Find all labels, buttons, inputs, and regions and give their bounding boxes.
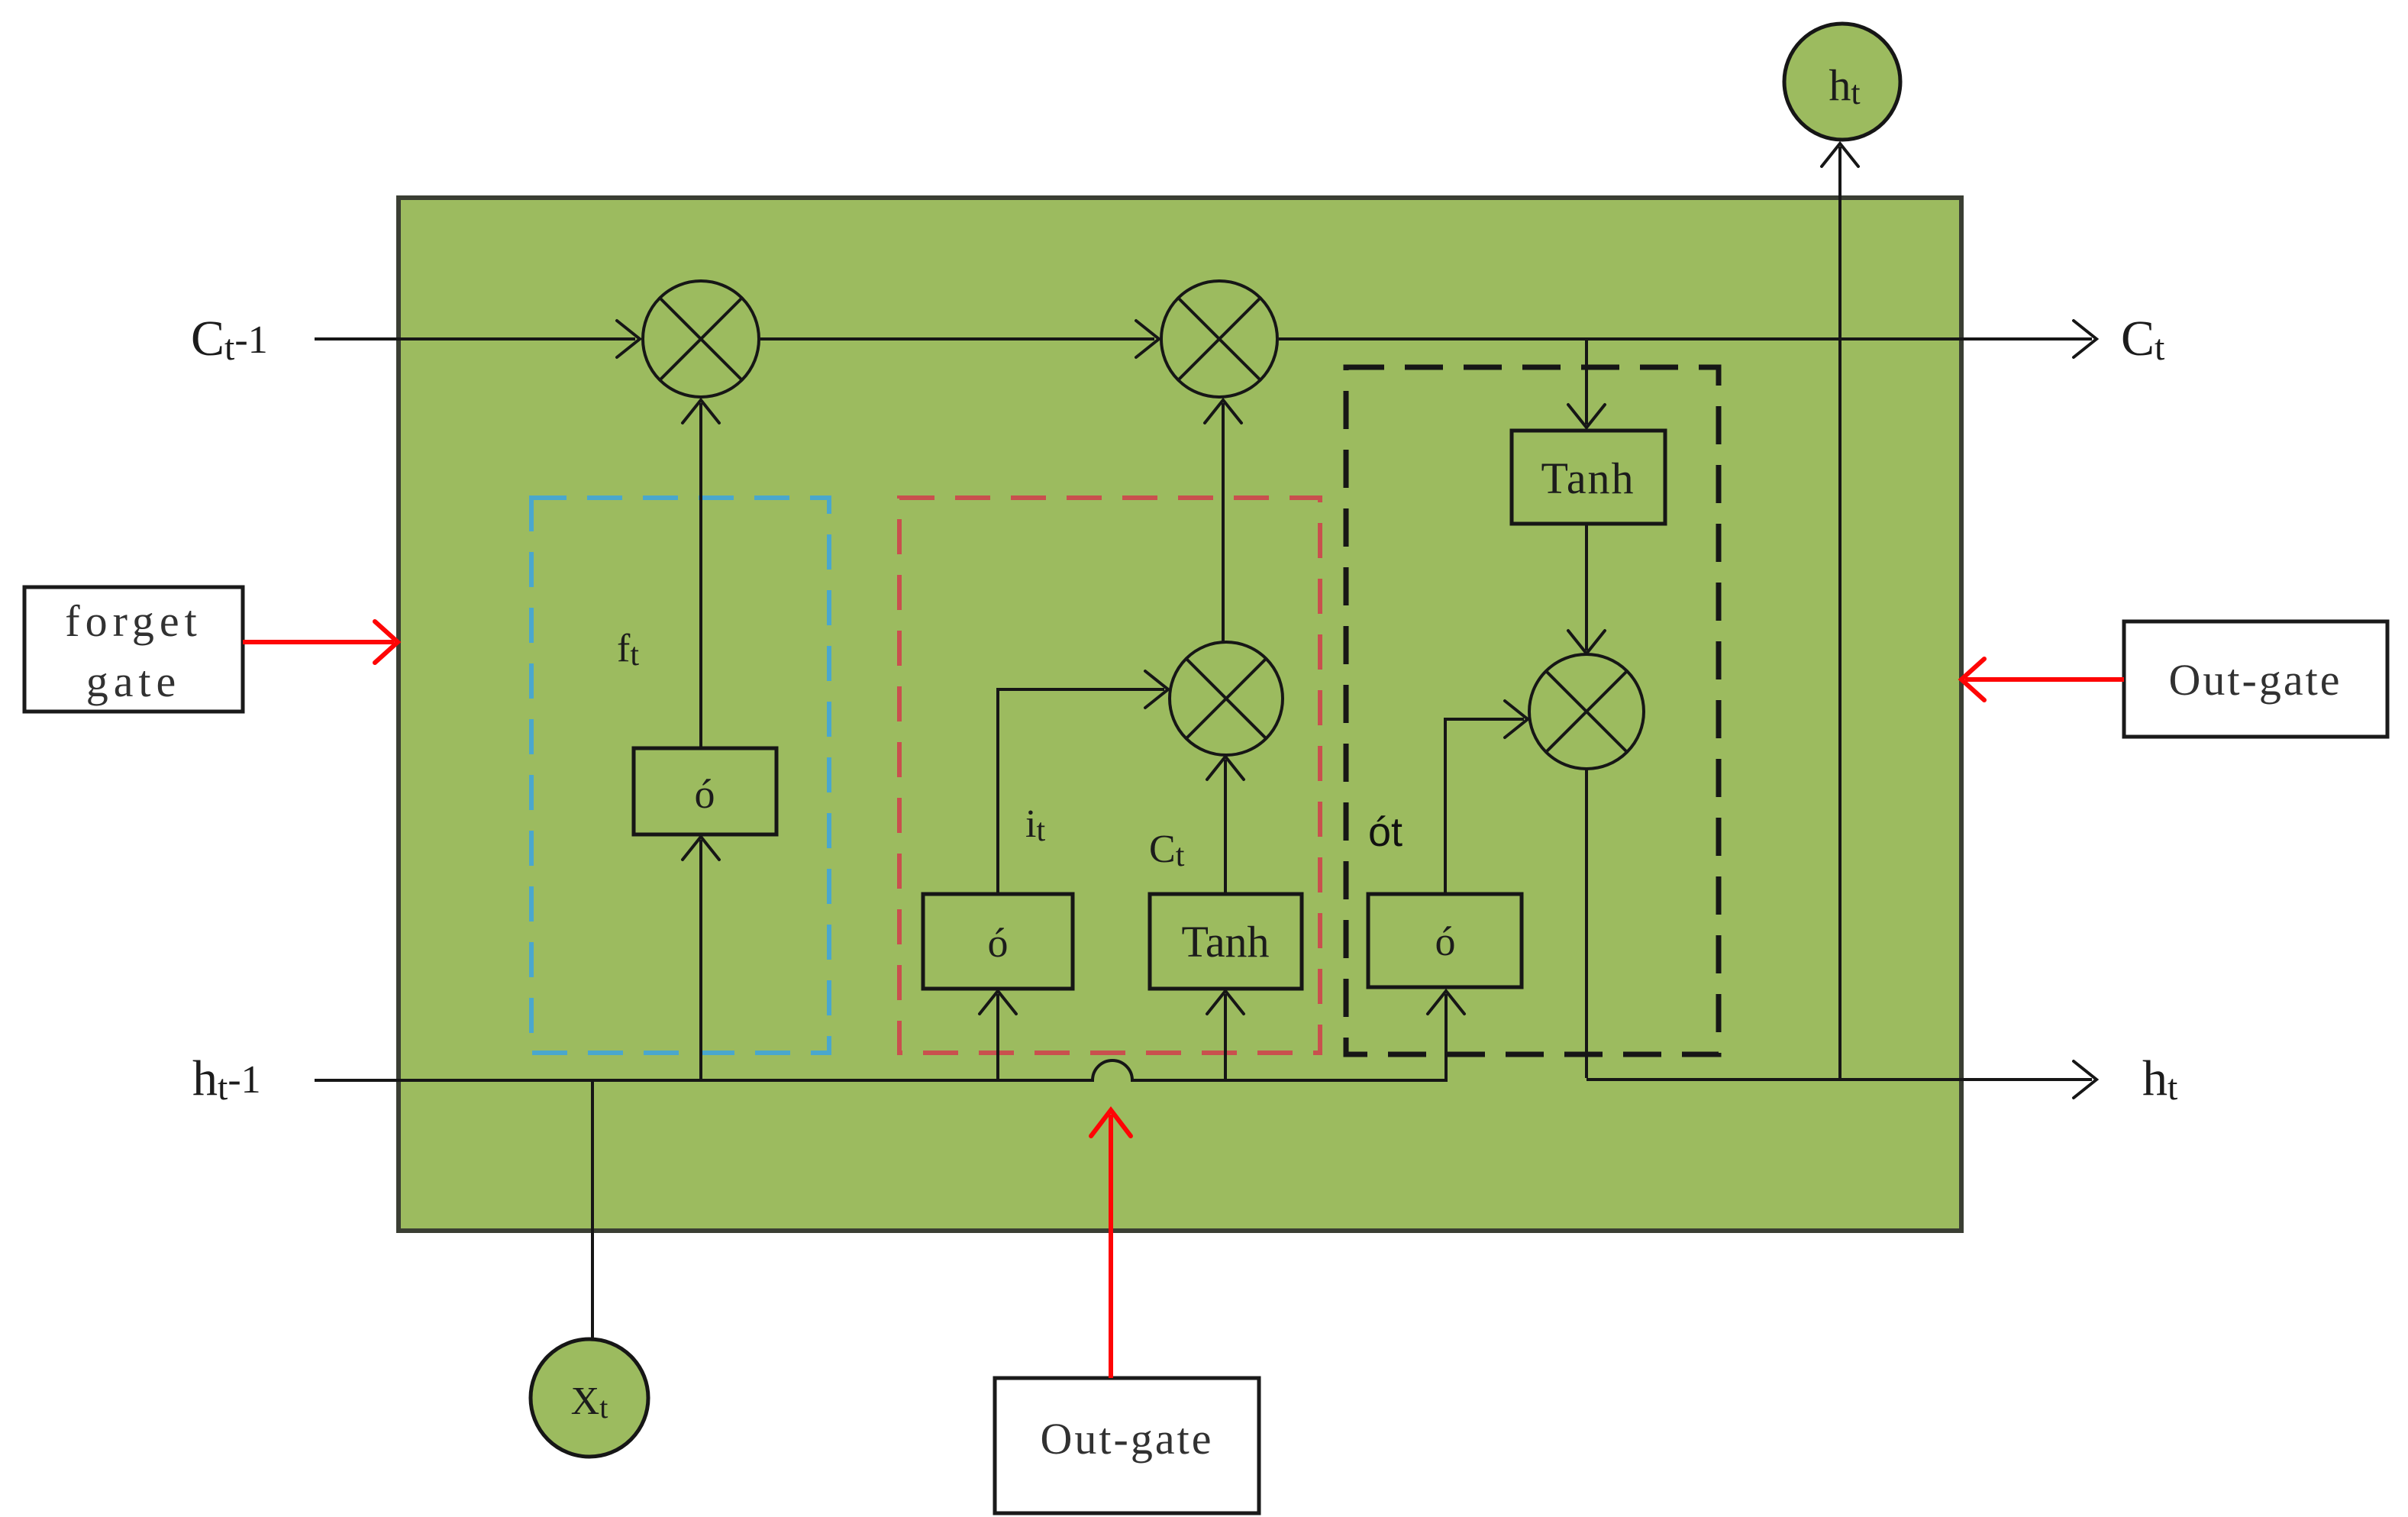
green LSTM cell body — [399, 198, 1961, 1231]
node xt circle (input) — [531, 1339, 648, 1457]
svg-text:Out-gate: Out-gate — [2169, 655, 2342, 705]
multiplier X1 (forget product) — [643, 281, 759, 397]
wire Ct-1 input line — [315, 337, 635, 341]
multiplier X3 (output product) — [1529, 654, 1644, 769]
sigma box 3 (output gate) — [1368, 894, 1522, 987]
forget gate callout box — [24, 587, 243, 712]
wire h output segment — [1587, 1078, 2092, 1081]
wire below Tanh1 — [1224, 994, 1227, 1080]
blue dashed box (forget gate region) — [531, 498, 829, 1053]
wire sigma1 up to X1 — [699, 403, 702, 748]
svg-text:ót: ót — [1368, 809, 1403, 855]
sigma box 1 (forget gate) — [634, 748, 776, 834]
red arrow out gate right — [1965, 677, 2124, 682]
svg-text:ó: ó — [988, 920, 1009, 966]
Out-gate callout box bottom — [995, 1378, 1259, 1513]
wire xt riser — [591, 1080, 594, 1341]
svg-text:ó: ó — [695, 771, 715, 817]
svg-text:ht: ht — [2142, 1051, 2178, 1108]
wire below sigma2 — [996, 994, 999, 1080]
wire branch down to Tanh (output path) — [1585, 341, 1588, 424]
wire Tanh to X3 — [1585, 524, 1588, 650]
svg-text:forget: forget — [65, 596, 202, 646]
svg-text:Ct: Ct — [2121, 311, 2165, 368]
wire sigma2 elbow into X2b — [998, 689, 1164, 894]
black dashed box (output gate region) — [1346, 367, 1719, 1054]
wire sigma3 elbow into X3 — [1445, 719, 1524, 894]
multiplier X2 (cell state sum) — [1161, 281, 1277, 397]
sigma box 2 (input gate) — [923, 894, 1073, 989]
svg-text:gate: gate — [86, 657, 182, 706]
red arrow out gate bottom — [1109, 1115, 1113, 1378]
wire X1 to X2 — [760, 337, 1154, 341]
svg-text:Ct-1: Ct-1 — [191, 311, 268, 368]
wire Tanh1 up into X2b — [1224, 760, 1227, 894]
svg-text:Tanh: Tanh — [1541, 453, 1635, 503]
multiplier X2b (input product) — [1170, 642, 1283, 755]
Tanh box 1 (candidate) — [1150, 894, 1302, 989]
node ht circle (hidden state out) — [1784, 24, 1900, 140]
svg-text:Tanh: Tanh — [1181, 917, 1269, 967]
wire ht-1 input with hop, bends up into sigma3 — [315, 994, 1446, 1080]
Out-gate callout box right — [2124, 621, 2387, 737]
wire ht vertical to top circle — [1838, 147, 1842, 1080]
red dashed box (input gate region) — [899, 498, 1320, 1053]
red arrow forget gate — [243, 640, 394, 644]
Tanh box (output) — [1512, 431, 1665, 524]
wire below sigma1 — [699, 840, 702, 1080]
wire X3 down to h line — [1585, 769, 1588, 1078]
wire X2b up into X2 — [1222, 403, 1225, 642]
wire Ct output line — [1279, 337, 2092, 341]
svg-text:ó: ó — [1435, 918, 1456, 964]
svg-text:Out-gate: Out-gate — [1041, 1414, 1214, 1464]
svg-text:ht-1: ht-1 — [192, 1051, 261, 1108]
